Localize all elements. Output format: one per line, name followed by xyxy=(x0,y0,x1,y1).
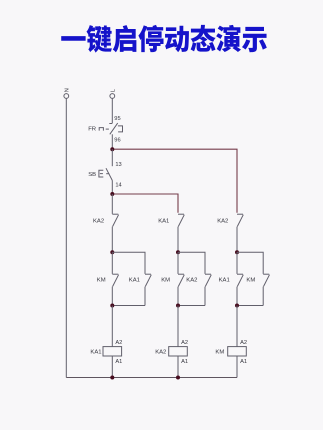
label KA1 row1 branch2 xyxy=(158,218,169,224)
svg-text:KA1: KA1 xyxy=(158,218,169,224)
svg-text:KA2: KA2 xyxy=(93,218,104,224)
node J5 xyxy=(235,250,239,254)
svg-text:95: 95 xyxy=(114,116,120,122)
label SB xyxy=(88,172,96,178)
node J6 xyxy=(110,304,114,308)
contact KA2 branch3 row1 xyxy=(237,214,243,252)
terminal L xyxy=(110,94,115,99)
coil KA2 xyxy=(169,347,188,356)
svg-text:A2: A2 xyxy=(115,340,122,346)
svg-text:14: 14 xyxy=(115,182,121,188)
wire coil KA2 to bus xyxy=(177,356,179,378)
label KM row2 branch2 xyxy=(161,277,170,283)
wire N vertical bus xyxy=(65,99,67,378)
contact KM parallel branch3 row2 xyxy=(263,274,269,305)
contact KA2 parallel branch2 row2 xyxy=(205,274,211,305)
svg-text:KM: KM xyxy=(97,277,106,283)
label KM row2 parallel3 xyxy=(246,277,255,283)
wire SB to node J2 xyxy=(111,181,113,194)
node J10 xyxy=(176,376,180,380)
wire coil KA1 to bus xyxy=(111,356,113,378)
svg-text:13: 13 xyxy=(115,162,121,168)
contact KA2 branch1 row1 xyxy=(112,194,118,252)
svg-text:KA2: KA2 xyxy=(217,218,228,224)
label KA2 row1 branch1 xyxy=(93,218,104,224)
pin label A1 coil3 xyxy=(240,359,247,365)
wire branch3 to coil KM xyxy=(236,306,238,347)
svg-text:A1: A1 xyxy=(115,359,122,365)
pin label 14 xyxy=(115,182,121,188)
contact KA1 branch3 row2 xyxy=(237,252,243,305)
pin label A1 coil1 xyxy=(115,359,122,365)
wire J4 to parallel branch2 xyxy=(178,252,205,274)
svg-text:A2: A2 xyxy=(181,340,188,346)
label KA1 coil xyxy=(90,350,101,356)
wire branch2 to coil KA2 xyxy=(177,306,179,347)
node J8 xyxy=(235,304,239,308)
wire J1 to branch3 top (live) xyxy=(112,149,237,213)
node J1 xyxy=(110,147,114,151)
pin label A2 coil3 xyxy=(240,340,247,346)
pushbutton SB xyxy=(99,168,113,180)
contact KA1 branch2 row1 xyxy=(178,214,184,252)
label KA1 row2 branch3 xyxy=(219,277,230,283)
svg-text:A1: A1 xyxy=(181,359,188,365)
svg-text:KA1: KA1 xyxy=(219,277,230,283)
label KA2 row1 branch3 xyxy=(217,218,228,224)
wire J5 to parallel branch3 xyxy=(237,252,263,274)
svg-text:KA2: KA2 xyxy=(155,350,166,356)
contact KM branch2 row2 xyxy=(178,252,184,305)
node J9 xyxy=(110,376,114,380)
svg-text:KA1: KA1 xyxy=(129,277,140,283)
wire bottom bus xyxy=(66,377,237,379)
svg-text:KA1: KA1 xyxy=(90,350,101,356)
wire J2 to branch2 top (live) xyxy=(112,194,178,213)
coil KM xyxy=(228,347,247,356)
label KM row2 branch1 xyxy=(97,277,106,283)
pin label 13 xyxy=(115,162,121,168)
label KA2 coil xyxy=(155,350,166,356)
thermal relay contact FR xyxy=(99,123,122,134)
svg-text:L: L xyxy=(110,89,116,92)
pin label A1 coil2 xyxy=(181,359,188,365)
label KM coil xyxy=(215,350,224,356)
svg-text:96: 96 xyxy=(114,137,120,143)
pin label A2 coil2 xyxy=(181,340,188,346)
wire parallel1 rejoin xyxy=(112,305,145,307)
wire parallel3 rejoin xyxy=(237,305,263,307)
title 一键启停动态演示 xyxy=(61,25,267,53)
svg-text:A2: A2 xyxy=(240,340,247,346)
svg-text:KM: KM xyxy=(161,277,170,283)
wire branch1 to coil KA1 xyxy=(111,306,113,347)
node J2 xyxy=(110,192,114,196)
contact KM branch1 row2 xyxy=(112,252,118,305)
wire J1 to SB xyxy=(111,149,113,166)
node J7 xyxy=(176,304,180,308)
label KA2 row2 parallel2 xyxy=(186,277,197,283)
contact KA1 parallel branch1 row2 xyxy=(145,274,151,305)
wire parallel2 rejoin xyxy=(178,305,205,307)
node J3 xyxy=(110,250,114,254)
label FR xyxy=(88,127,96,133)
svg-text:SB: SB xyxy=(88,172,96,178)
pin label 96 xyxy=(114,137,120,143)
label KA1 row2 parallel1 xyxy=(129,277,140,283)
label N xyxy=(64,88,70,92)
pin label A2 coil1 xyxy=(115,340,122,346)
node J4 xyxy=(176,250,180,254)
svg-text:FR: FR xyxy=(88,127,96,133)
wire FR to node J1 xyxy=(111,134,113,149)
svg-text:KM: KM xyxy=(246,277,255,283)
wire J3 to parallel branch1 xyxy=(112,252,145,274)
label L xyxy=(110,89,116,92)
wire coil KM to bus xyxy=(236,356,238,378)
wire L lead to FR xyxy=(111,99,113,124)
terminal N xyxy=(64,94,69,99)
svg-text:KM: KM xyxy=(215,350,224,356)
pin label 95 xyxy=(114,116,120,122)
svg-text:A1: A1 xyxy=(240,359,247,365)
coil KA1 xyxy=(103,347,122,356)
svg-text:KA2: KA2 xyxy=(186,277,197,283)
svg-text:N: N xyxy=(64,88,70,92)
